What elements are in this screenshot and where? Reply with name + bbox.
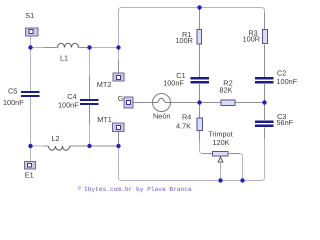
capacitor C1: [191, 77, 210, 80]
lead L1 left and right: [44, 47, 90, 49]
inductor L2: [49, 146, 70, 150]
inductor L1: [58, 43, 79, 47]
capacitor C3: [255, 121, 274, 124]
neon lamp: [153, 94, 171, 112]
node dot neon/R2/C1/R4: [197, 100, 201, 104]
wire S1 branch: [30, 37, 32, 48]
electrode E1: [25, 162, 36, 170]
wire L2 rail left stub: [31, 145, 45, 147]
svg-text:82K: 82K: [219, 86, 232, 95]
resistor R2: [221, 100, 235, 106]
node dot trimpot wiper: [218, 178, 222, 182]
electrode MT2: [113, 73, 124, 81]
svg-text:MT2: MT2: [97, 80, 112, 89]
svg-text:R4: R4: [182, 113, 191, 122]
svg-text:100nF: 100nF: [163, 79, 184, 88]
lead MT1 drop: [118, 132, 120, 147]
trimpot 120K: [213, 152, 229, 163]
wire E1 branch: [30, 146, 32, 161]
capacitor C2: [255, 77, 274, 80]
wire top rail with left drop and right drop: [119, 8, 265, 48]
node dot trimpot right: [240, 178, 244, 182]
lead C4 upper and lower: [89, 76, 91, 124]
wire MT2 branch upper: [118, 48, 120, 61]
node dot MT2 branch: [116, 45, 120, 49]
lead trimpot left and right: [203, 153, 241, 155]
svg-text:S1: S1: [25, 11, 34, 20]
lead R1 and C1 string: [199, 8, 201, 103]
svg-text:L2: L2: [52, 134, 60, 143]
svg-text:Neón: Neón: [153, 112, 170, 121]
resistor R3: [263, 30, 268, 44]
node dot S1/C5/rail: [28, 45, 32, 49]
svg-text:E1: E1: [25, 170, 34, 179]
node dot C4 top: [87, 45, 91, 49]
capacitor C4: [80, 99, 99, 101]
lead MT2 lower: [118, 60, 120, 73]
svg-text:C5: C5: [8, 87, 17, 96]
capacitor C5: [21, 91, 40, 93]
electrode MT1: [113, 123, 125, 132]
svg-text:100nF: 100nF: [3, 98, 24, 107]
lead R4 string: [199, 103, 201, 142]
svg-text:L1: L1: [60, 53, 68, 62]
svg-text:100nF: 100nF: [277, 77, 298, 86]
svg-text:©: ©: [78, 186, 81, 192]
lead R3 string: [264, 13, 266, 77]
lead C2 C3 string: [264, 84, 266, 138]
node dot R2/C2/C3: [262, 100, 266, 104]
svg-text:100nF: 100nF: [58, 100, 79, 109]
node dot MT1/L2/bottom: [116, 144, 120, 148]
lead R2 horizontal: [200, 102, 265, 104]
svg-text:4.7K: 4.7K: [176, 122, 191, 131]
svg-text:100R: 100R: [176, 36, 193, 45]
wire trimpot left corner: [200, 141, 203, 154]
svg-text:100R: 100R: [243, 35, 260, 44]
wire upper-mid rail left stub: [31, 47, 45, 49]
lead neon horizontal: [134, 102, 200, 104]
node dot top rail R1: [197, 5, 201, 9]
resistor R4: [197, 118, 203, 131]
wire C5 string: [30, 48, 32, 147]
svg-text:56nF: 56nF: [277, 118, 294, 127]
node dot C5/L2/E1: [28, 144, 32, 148]
svg-text:120K: 120K: [213, 138, 230, 147]
svg-text:MT1: MT1: [97, 115, 112, 124]
wire trimpot wiper drop: [220, 163, 222, 181]
switch S1: [26, 28, 39, 36]
svg-text:G: G: [118, 94, 124, 103]
lead L2 and MT1 net segment: [44, 145, 119, 147]
wire trimpot right corner: [240, 154, 243, 181]
svg-text:Ibytes.com.br by Plava Branca: Ibytes.com.br by Plava Branca: [84, 186, 192, 193]
node dot C4/L2: [87, 144, 91, 148]
wire C4 string light parts: [89, 48, 91, 147]
electrode G: [124, 97, 133, 108]
wire bottom rail with corners: [119, 138, 265, 181]
resistor R1: [197, 30, 202, 45]
wire upper-mid rail right part: [90, 47, 119, 49]
